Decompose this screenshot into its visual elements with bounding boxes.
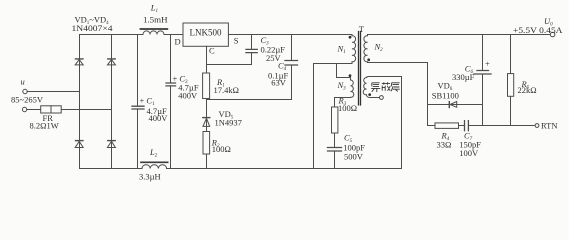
capacitor C2 branch wire bbox=[170, 35, 172, 169]
transformer T core lines bbox=[359, 32, 361, 106]
capacitor C3 plates bbox=[246, 49, 257, 52]
wire input lower to FR bbox=[27, 109, 112, 111]
resistor R3 box bbox=[332, 107, 338, 133]
winding N3 polarity dot bbox=[349, 74, 352, 77]
resistor R4 box bbox=[435, 123, 459, 128]
winding N2 polarity dot bbox=[367, 58, 370, 61]
svg-text:400V: 400V bbox=[178, 91, 198, 101]
wire N3 bottom lead bbox=[335, 98, 351, 108]
capacitor C6 plates bbox=[474, 71, 491, 75]
svg-text:33Ω: 33Ω bbox=[437, 140, 452, 150]
svg-text:N3: N3 bbox=[337, 80, 347, 92]
svg-text:S: S bbox=[234, 36, 239, 46]
svg-text:1N4007×4: 1N4007×4 bbox=[72, 23, 114, 33]
winding shield polarity dot bbox=[368, 93, 371, 96]
svg-text:100Ω: 100Ω bbox=[212, 144, 231, 154]
wire RC snubber row bbox=[428, 125, 483, 127]
capacitor C1 plates bbox=[132, 106, 144, 109]
wire primary bottom return bbox=[314, 62, 353, 169]
winding N1 primary coil bbox=[352, 35, 356, 62]
svg-text:SB1100: SB1100 bbox=[432, 90, 459, 100]
capacitor C4 plates bbox=[285, 61, 298, 66]
diode VD1 (bridge left top) bbox=[76, 58, 83, 60]
svg-text:L1: L1 bbox=[150, 3, 158, 15]
inductor L2 3.3uH coil bbox=[142, 165, 167, 169]
wire bottom rail bbox=[80, 168, 402, 170]
input terminal u upper circle bbox=[23, 89, 27, 93]
wire C pin chain bbox=[206, 46, 208, 168]
svg-text:RTN: RTN bbox=[541, 120, 558, 130]
inductor L2 core bar bbox=[141, 161, 168, 163]
svg-text:D: D bbox=[175, 37, 181, 47]
wire C5 to rail bbox=[334, 151, 336, 169]
svg-text:22kΩ: 22kΩ bbox=[518, 85, 537, 95]
winding shield coil bbox=[363, 78, 366, 95]
winding N3 bias coil bbox=[351, 80, 354, 97]
svg-text:400V: 400V bbox=[149, 113, 169, 123]
diode VD4 (bridge right bottom) bbox=[108, 140, 115, 142]
resistor R2 box bbox=[203, 132, 210, 155]
svg-text:63V: 63V bbox=[271, 77, 287, 87]
svg-text:8.2Ω1W: 8.2Ω1W bbox=[30, 120, 59, 130]
svg-text:100Ω: 100Ω bbox=[338, 103, 357, 113]
capacitor C3 branch wire bbox=[207, 35, 252, 65]
winding N1 polarity dot bbox=[349, 36, 352, 39]
resistor R5 box bbox=[508, 74, 514, 97]
wire S pin to transformer primary top bbox=[228, 34, 352, 36]
svg-text:1.5mH: 1.5mH bbox=[143, 15, 168, 25]
wire N2 bottom lead bbox=[368, 62, 428, 64]
diode VD2 (bridge right top) bbox=[108, 58, 115, 60]
diode VD3 (bridge left bottom) bbox=[76, 140, 83, 142]
winding N2 secondary coil bbox=[364, 35, 368, 63]
capacitor C2 plates bbox=[166, 83, 176, 86]
svg-text:100V: 100V bbox=[459, 148, 479, 158]
wire VD6 row bbox=[428, 104, 483, 106]
wire RTN line bbox=[483, 125, 536, 127]
wire output cap branch bbox=[482, 35, 484, 126]
svg-text:85~265V: 85~265V bbox=[11, 95, 44, 105]
inductor L1 core bar bbox=[141, 28, 168, 30]
svg-text:N2: N2 bbox=[374, 41, 384, 53]
terminal Uo circle bbox=[550, 32, 555, 37]
resistor R5 branch wire bbox=[510, 35, 512, 126]
svg-text:C: C bbox=[209, 45, 215, 55]
capacitor C7 plates bbox=[465, 121, 469, 131]
terminal RTN circle bbox=[535, 124, 539, 128]
wire shield bottom lead bbox=[367, 95, 380, 98]
svg-text:500V: 500V bbox=[344, 151, 364, 161]
svg-text:u: u bbox=[21, 77, 25, 87]
bridge left leg wire bbox=[79, 35, 81, 169]
diode VD6 SB1100 bbox=[448, 102, 450, 108]
op-amp U1 LNK500 box bbox=[183, 23, 228, 46]
svg-text:T: T bbox=[359, 24, 365, 34]
resistor R1 box bbox=[203, 73, 210, 99]
fuse resistor FR box bbox=[41, 106, 62, 113]
capacitor C5 plates bbox=[328, 148, 342, 152]
wire R3 to C5 bbox=[334, 133, 336, 147]
svg-text:17.4kΩ: 17.4kΩ bbox=[214, 85, 239, 95]
svg-text:L2: L2 bbox=[149, 147, 158, 159]
wire top rail left (bridge to L1 to D pin) bbox=[80, 34, 184, 36]
bridge right leg wire bbox=[111, 35, 113, 169]
shield open terminal circle bbox=[380, 96, 384, 100]
capacitor C1 branch wire bbox=[137, 35, 139, 169]
svg-text:+5.5V 0.45A: +5.5V 0.45A bbox=[513, 25, 563, 35]
diode VD5 1N4937 bbox=[203, 117, 210, 119]
capacitor C4 branch wire bbox=[207, 35, 292, 100]
wire N3 top lead bbox=[337, 64, 351, 81]
wire shield top lead bbox=[367, 77, 402, 169]
input terminal lower circle bbox=[22, 107, 26, 111]
svg-text:N1: N1 bbox=[337, 44, 346, 56]
wire secondary top rail to output terminal bbox=[368, 34, 551, 36]
svg-text:1N4937: 1N4937 bbox=[215, 117, 242, 127]
svg-text:+: + bbox=[485, 58, 490, 68]
wire secondary rectifier branch bbox=[427, 63, 429, 126]
inductor L1 1.5mH coil bbox=[143, 31, 164, 35]
svg-text:330µF: 330µF bbox=[452, 72, 475, 82]
svg-text:LNK500: LNK500 bbox=[190, 28, 222, 38]
label shield (ping bi ceng glyphs) bbox=[371, 82, 400, 92]
svg-text:3.3µH: 3.3µH bbox=[139, 171, 161, 181]
wire input upper bbox=[27, 91, 79, 93]
